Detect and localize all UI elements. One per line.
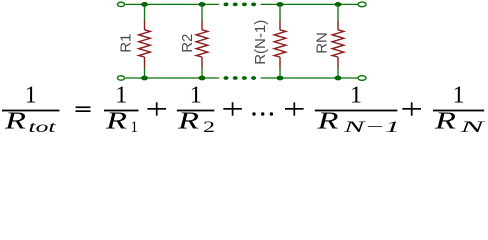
svg-text:R: R bbox=[4, 108, 26, 135]
resistor RN bbox=[332, 4, 344, 78]
svg-text:R(N-1): R(N-1) bbox=[252, 20, 269, 65]
wire bottom rail right segment bbox=[261, 77, 358, 79]
svg-text:R: R bbox=[105, 108, 127, 135]
junction top R2 bbox=[199, 2, 206, 7]
fraction 1/R_(N-1) bar bbox=[315, 110, 398, 112]
svg-text:N: N bbox=[458, 119, 486, 136]
plus sign 4 bbox=[402, 102, 421, 115]
svg-text:tot: tot bbox=[29, 119, 57, 136]
resistor R2 bbox=[196, 4, 208, 78]
svg-text:2: 2 bbox=[203, 119, 215, 136]
junction bottom R2 bbox=[199, 76, 206, 81]
svg-text:R2: R2 bbox=[179, 34, 196, 53]
terminal bottom-right bbox=[358, 76, 366, 81]
svg-text:R: R bbox=[316, 108, 338, 135]
fraction 1/R_tot bar bbox=[2, 110, 60, 112]
junction bottom R(N-1) bbox=[277, 76, 284, 81]
plus sign 1 bbox=[147, 102, 166, 115]
wire bottom rail left segment bbox=[125, 77, 219, 79]
svg-text:R: R bbox=[434, 108, 456, 135]
fraction 1/R_N bar bbox=[433, 110, 484, 112]
svg-text:1: 1 bbox=[190, 83, 202, 109]
equals sign bbox=[76, 106, 91, 108]
junction bottom R1 bbox=[141, 76, 148, 81]
wire top rail left segment bbox=[125, 3, 219, 5]
resistor R(N-1) bbox=[274, 4, 286, 78]
ellipsis dots bottom rail bbox=[224, 76, 257, 80]
resistor R1 bbox=[139, 4, 151, 78]
svg-text:R1: R1 bbox=[117, 34, 134, 53]
svg-text:1: 1 bbox=[131, 119, 139, 136]
fraction 1/R_2 bar bbox=[177, 110, 215, 112]
svg-text:R: R bbox=[177, 108, 199, 135]
svg-text:1: 1 bbox=[115, 83, 127, 109]
svg-text:N−1: N−1 bbox=[342, 119, 400, 136]
svg-text:1: 1 bbox=[453, 83, 465, 109]
terminal top-left bbox=[117, 2, 124, 6]
svg-text:1: 1 bbox=[350, 83, 362, 109]
junction bottom RN bbox=[335, 76, 342, 81]
wire top rail right segment bbox=[261, 3, 358, 5]
terminal bottom-left bbox=[117, 76, 124, 80]
junction top R1 bbox=[141, 2, 148, 7]
svg-text:RN: RN bbox=[313, 32, 330, 54]
fraction 1/R_1 bar bbox=[104, 110, 139, 112]
plus sign 3 bbox=[285, 102, 304, 115]
plus sign 2 bbox=[223, 102, 242, 115]
terminal top-right bbox=[358, 2, 366, 7]
ellipsis dots bbox=[252, 112, 273, 115]
ellipsis dots top rail bbox=[224, 3, 257, 7]
junction top RN bbox=[335, 2, 342, 7]
junction top R(N-1) bbox=[277, 2, 284, 7]
svg-text:1: 1 bbox=[25, 83, 37, 109]
